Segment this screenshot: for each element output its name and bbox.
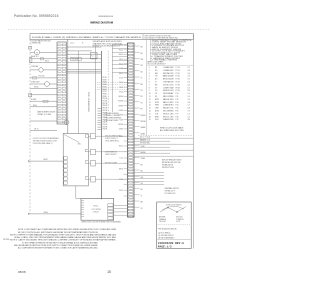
svg-text:P15: P15 bbox=[176, 108, 179, 110]
svg-text:TN-18: TN-18 bbox=[119, 87, 123, 89]
svg-text:USE COPPER CONDUCTORS ONLY: USE COPPER CONDUCTORS ONLY bbox=[145, 35, 173, 37]
svg-text:BU: BU bbox=[141, 71, 143, 73]
svg-text:MDL: MDL bbox=[78, 144, 81, 146]
svg-text:1-2: 1-2 bbox=[188, 67, 190, 69]
svg-text:RDW: RDW bbox=[155, 102, 159, 104]
svg-text:3-6: 3-6 bbox=[188, 119, 190, 121]
svg-text:11: 11 bbox=[149, 96, 151, 98]
svg-text:NOTE 3: CAVITY GROUNDED THROUG: NOTE 3: CAVITY GROUNDED THROUGH CHASSIS.… bbox=[10, 239, 117, 242]
svg-text:5-6: 5-6 bbox=[188, 73, 190, 75]
J1 stub labels bbox=[141, 47, 146, 210]
svg-text:PU-18: PU-18 bbox=[119, 82, 123, 84]
svg-text:5-7: 5-7 bbox=[188, 105, 190, 107]
svg-text:YL/BK: YL/BK bbox=[141, 146, 145, 148]
connector P1 pins bbox=[58, 44, 66, 123]
svg-text:CIRCUIT: CIRCUIT bbox=[93, 212, 99, 214]
svg-text:BR-18: BR-18 bbox=[119, 169, 123, 171]
connector J1 right stubs bbox=[134, 46, 140, 207]
svg-text:PAGE:1/2: PAGE:1/2 bbox=[158, 245, 172, 249]
svg-text:2-5: 2-5 bbox=[188, 116, 190, 118]
svg-text:P11 BK: P11 BK bbox=[103, 101, 108, 103]
svg-text:15: 15 bbox=[107, 270, 111, 274]
wire row 12 bbox=[30, 130, 57, 132]
svg-text:WIRE COLOR CODE TABLE: WIRE COLOR CODE TABLE bbox=[160, 126, 184, 129]
svg-text:P/N 318046200 (REV A): P/N 318046200 (REV A) bbox=[158, 228, 177, 231]
svg-text:P11: P11 bbox=[176, 96, 179, 98]
pin ladder labels bbox=[103, 77, 108, 131]
left border bbox=[29, 39, 31, 214]
svg-text:P1 BK: P1 BK bbox=[103, 77, 107, 79]
svg-text:WH-16: WH-16 bbox=[34, 86, 39, 88]
svg-text:PK: PK bbox=[141, 109, 143, 111]
svg-text:1-4: 1-4 bbox=[188, 113, 190, 115]
svg-text:CHASSIS GND: CHASSIS GND bbox=[163, 118, 174, 121]
latch assembly box bbox=[63, 134, 88, 186]
wire row 2 bbox=[30, 58, 57, 60]
svg-text:THIS APPLIANCE MUST BE PROPERL: THIS APPLIANCE MUST BE PROPERLY bbox=[93, 40, 123, 43]
svg-text:WH/BK: WH/BK bbox=[118, 105, 123, 107]
svg-text:COOLING FAN MOTOR 120V: COOLING FAN MOTOR 120V bbox=[31, 40, 51, 43]
svg-text:2-4: 2-4 bbox=[188, 96, 190, 98]
svg-text:NOTE 1: DISCONNECT ALL POWER B: NOTE 1: DISCONNECT ALL POWER BEFORE SERV… bbox=[18, 228, 117, 231]
svg-text:15: 15 bbox=[149, 108, 151, 110]
terminal block L1 bbox=[29, 46, 32, 49]
svg-text:LIGHT CIRCUIT: LIGHT CIRCUIT bbox=[105, 154, 117, 156]
svg-text:3-5: 3-5 bbox=[188, 99, 190, 101]
svg-text:7-9: 7-9 bbox=[188, 111, 190, 113]
svg-text:P18: P18 bbox=[176, 116, 179, 118]
svg-text:P14 COMMON WH/BK: P14 COMMON WH/BK bbox=[105, 118, 122, 120]
svg-text:OR/BK: OR/BK bbox=[141, 133, 146, 135]
bus wire vertical C bbox=[95, 43, 97, 133]
svg-text:P3 BK: P3 BK bbox=[103, 82, 107, 84]
svg-text:P23 BK: P23 BK bbox=[103, 129, 108, 131]
bus wire vertical A bbox=[67, 39, 69, 133]
oven light motor bbox=[45, 82, 50, 87]
svg-text:DOOR LOCK: DOOR LOCK bbox=[163, 84, 175, 86]
svg-text:DLB RELAY: DLB RELAY bbox=[163, 92, 175, 95]
door lock switch sketch bbox=[160, 204, 186, 212]
svg-text:DOOR SWITCH: DOOR SWITCH bbox=[105, 152, 117, 154]
svg-text:BK-14: BK-14 bbox=[119, 45, 123, 47]
right region wires bbox=[134, 138, 194, 156]
EOC to J1 wires bbox=[114, 205, 128, 215]
svg-text:1: 1 bbox=[149, 67, 150, 69]
svg-text:P9 18: P9 18 bbox=[176, 90, 180, 92]
svg-text:P14: P14 bbox=[176, 105, 179, 107]
svg-text:P6 18: P6 18 bbox=[176, 82, 180, 84]
svg-text:P7 BK: P7 BK bbox=[103, 91, 107, 93]
svg-text:OR-16: OR-16 bbox=[34, 129, 39, 131]
svg-text:ALL COMPONENTS SHOWN FROM REAR: ALL COMPONENTS SHOWN FROM REAR OF UNIT. … bbox=[18, 247, 98, 250]
svg-text:BAKE ELEMENT 3000W: BAKE ELEMENT 3000W bbox=[37, 111, 55, 114]
svg-text:P7 18: P7 18 bbox=[176, 84, 180, 86]
latch note text bbox=[33, 137, 60, 145]
svg-text:P14 BK: P14 BK bbox=[103, 108, 108, 110]
svg-text:P10: P10 bbox=[176, 93, 179, 95]
svg-text:TCO 120C: TCO 120C bbox=[38, 76, 45, 78]
svg-text:OPENS 150°F: OPENS 150°F bbox=[165, 190, 175, 192]
left edge component bbox=[29, 58, 32, 63]
svg-text:UNLOCK: UNLOCK bbox=[176, 217, 184, 219]
svg-text:P2 14: P2 14 bbox=[176, 70, 180, 72]
svg-text:PU: PU bbox=[155, 90, 158, 92]
svg-text:BR: BR bbox=[141, 202, 144, 204]
svg-text:P12 BK: P12 BK bbox=[103, 103, 108, 105]
svg-text:GYB: GYB bbox=[155, 119, 158, 121]
svg-text:BROWN: BROWN bbox=[159, 217, 166, 219]
svg-text:K1: K1 bbox=[91, 56, 93, 58]
wire color table bbox=[148, 60, 194, 121]
svg-text:CONV FAN MTR: CONV FAN MTR bbox=[163, 81, 174, 84]
svg-text:9-1: 9-1 bbox=[188, 79, 190, 81]
svg-text:ORB: ORB bbox=[155, 108, 158, 110]
bus wire vertical D bbox=[100, 51, 102, 199]
EOC control box bbox=[81, 199, 114, 221]
svg-text:7-8: 7-8 bbox=[188, 76, 190, 78]
svg-text:YL-18: YL-18 bbox=[119, 68, 123, 70]
svg-text:P4 16: P4 16 bbox=[176, 76, 180, 78]
svg-text:COM TO EOC P7: COM TO EOC P7 bbox=[105, 138, 118, 140]
svg-text:M: M bbox=[36, 52, 38, 54]
broil element bbox=[64, 120, 69, 125]
svg-text:P8 BK: P8 BK bbox=[103, 93, 107, 95]
svg-text:P13: P13 bbox=[176, 102, 179, 104]
latch wires to switches bbox=[88, 136, 127, 179]
svg-text:5: 5 bbox=[149, 79, 150, 81]
svg-text:BU-18: BU-18 bbox=[119, 146, 123, 148]
svg-text:P10 BK: P10 BK bbox=[103, 98, 108, 100]
title block divider 1 bbox=[157, 224, 192, 226]
svg-text:P17: P17 bbox=[176, 113, 179, 115]
svg-text:PK: PK bbox=[155, 96, 158, 98]
svg-text:P13 BK: P13 BK bbox=[103, 105, 108, 107]
svg-text:RD/WH: RD/WH bbox=[141, 121, 146, 123]
svg-text:P8 18: P8 18 bbox=[176, 87, 180, 89]
wire row 4 bbox=[30, 69, 39, 71]
svg-text:LOCK SWITCH N.C.: LOCK SWITCH N.C. bbox=[105, 141, 120, 143]
convection fan motor bbox=[39, 68, 43, 72]
svg-text:P2 BK: P2 BK bbox=[103, 79, 107, 81]
svg-text:DOOR LOCK SWITCH: DOOR LOCK SWITCH bbox=[166, 204, 181, 206]
svg-text:MDL DRIVE: MDL DRIVE bbox=[163, 96, 174, 98]
svg-text:UNLOCK SWITCH N.O.: UNLOCK SWITCH N.O. bbox=[105, 136, 123, 138]
svg-text:4-5: 4-5 bbox=[188, 84, 190, 86]
anti-tip note box bbox=[162, 158, 182, 169]
svg-text:FAN LO SPD: FAN LO SPD bbox=[163, 101, 174, 104]
svg-text:TN: TN bbox=[155, 93, 158, 95]
svg-text:L2-MAIN 240V: L2-MAIN 240V bbox=[163, 69, 174, 72]
svg-text:WHB: WHB bbox=[155, 105, 159, 107]
svg-text:P21 BK: P21 BK bbox=[103, 124, 108, 126]
svg-text:YL: YL bbox=[141, 78, 143, 80]
svg-text:RD: RD bbox=[155, 70, 158, 72]
svg-text:17: 17 bbox=[149, 113, 151, 115]
svg-text:BK: BK bbox=[141, 47, 143, 49]
svg-text:19: 19 bbox=[149, 119, 151, 121]
svg-text:RELAY N.O.: RELAY N.O. bbox=[31, 55, 39, 58]
cooling fan motor bbox=[34, 50, 39, 55]
svg-text:SW N.O. LEG: SW N.O. LEG bbox=[163, 113, 174, 115]
svg-text:BKW: BKW bbox=[155, 99, 159, 101]
dashed link row bbox=[97, 82, 128, 89]
svg-text:16: 16 bbox=[149, 111, 151, 113]
wire mid 1 bbox=[67, 50, 93, 52]
svg-text:HI-LIMIT: HI-LIMIT bbox=[31, 99, 37, 101]
svg-text:GY: GY bbox=[141, 90, 143, 92]
dashed bus vertical F bbox=[111, 44, 113, 112]
svg-text:DOUBLE WALL OVEN (1) WIRING ON: DOUBLE WALL OVEN (1) WIRING ON PANEL SIM… bbox=[32, 36, 142, 39]
svg-text:RD-14: RD-14 bbox=[33, 105, 37, 107]
wire row 3 bbox=[30, 62, 57, 64]
diagram title strip box bbox=[30, 34, 194, 40]
svg-text:Publication No. 5995592215: Publication No. 5995592215 bbox=[14, 14, 59, 18]
latch diagonal linkage bbox=[64, 134, 79, 142]
svg-text:P5 18: P5 18 bbox=[176, 79, 180, 81]
svg-text:P6 BK: P6 BK bbox=[103, 89, 107, 91]
svg-text:GY/BK: GY/BK bbox=[119, 129, 123, 131]
svg-text:OR: OR bbox=[141, 183, 144, 185]
svg-text:WIRE CODE CHART: WIRE CODE CHART bbox=[148, 60, 164, 63]
svg-text:10: 10 bbox=[149, 93, 151, 95]
svg-text:MOTOR 120VAC: MOTOR 120VAC bbox=[105, 161, 118, 164]
right region lower wires bbox=[134, 172, 164, 184]
svg-text:P9 BK: P9 BK bbox=[103, 96, 107, 98]
svg-text:BR-18: BR-18 bbox=[119, 73, 123, 75]
svg-text:8: 8 bbox=[149, 87, 150, 89]
svg-text:BRW: BRW bbox=[155, 116, 159, 118]
svg-text:P16: P16 bbox=[176, 111, 179, 113]
svg-text:OR: OR bbox=[155, 76, 158, 78]
svg-text:THERMAL SWITCH: THERMAL SWITCH bbox=[165, 187, 180, 190]
svg-text:WH NEUTRAL: WH NEUTRAL bbox=[140, 141, 150, 144]
connector J1 left stubs bbox=[124, 45, 128, 196]
svg-text:BR: BR bbox=[141, 84, 144, 86]
svg-text:MAIN HARNESS 14GA: MAIN HARNESS 14GA bbox=[88, 92, 91, 112]
svg-text:COMMON RET: COMMON RET bbox=[163, 105, 174, 107]
svg-text:L1 L2: L1 L2 bbox=[70, 43, 74, 45]
svg-text:8-9: 8-9 bbox=[188, 90, 190, 92]
svg-text:YL: YL bbox=[141, 195, 143, 197]
svg-text:WH/BK: WH/BK bbox=[141, 127, 146, 129]
wire to EOC long bbox=[28, 213, 81, 215]
svg-text:EOC: EOC bbox=[94, 206, 99, 208]
svg-text:BU: BU bbox=[155, 79, 158, 81]
svg-text:GY: GY bbox=[141, 208, 143, 210]
svg-text:3-4: 3-4 bbox=[188, 70, 190, 72]
svg-text:P5 BK: P5 BK bbox=[103, 86, 107, 88]
svg-text:2: 2 bbox=[149, 70, 150, 72]
svg-text:3: 3 bbox=[149, 73, 150, 75]
svg-text:ANTI-TIP BRACKET MUST: ANTI-TIP BRACKET MUST bbox=[162, 158, 182, 161]
svg-text:6-7: 6-7 bbox=[188, 87, 190, 89]
svg-text:BROIL 3400W: BROIL 3400W bbox=[163, 79, 174, 81]
svg-text:08/08: 08/08 bbox=[18, 270, 26, 274]
wire row 10 bbox=[30, 106, 57, 108]
svg-text:BK/WH: BK/WH bbox=[141, 115, 146, 117]
EOC pin ticks bbox=[82, 201, 85, 217]
wire row 11 bbox=[30, 120, 57, 122]
svg-text:NOTE 2: REFER TO MINI MANUAL F: NOTE 2: REFER TO MINI MANUAL FOR DETAILE… bbox=[10, 233, 117, 236]
svg-text:P12: P12 bbox=[176, 99, 179, 101]
title block divider 2 bbox=[157, 238, 192, 240]
svg-text:DOOR LOCK MOTOR ASSEMBLY: DOOR LOCK MOTOR ASSEMBLY bbox=[33, 137, 60, 140]
svg-text:BUW: BUW bbox=[155, 111, 159, 113]
svg-text:SW COM FEED: SW COM FEED bbox=[163, 111, 174, 113]
thermal switch note bbox=[165, 187, 180, 195]
bus wire vertical B bbox=[77, 51, 79, 134]
relay box K1 bbox=[91, 53, 98, 59]
svg-text:P15 BK: P15 BK bbox=[103, 110, 108, 112]
fold crease line bbox=[8, 28, 210, 30]
svg-text:LOCK: LOCK bbox=[176, 221, 181, 223]
svg-text:OR/BK: OR/BK bbox=[119, 110, 123, 112]
legend divider dashed bbox=[138, 135, 194, 137]
terminal block 2 bbox=[29, 94, 32, 97]
svg-text:SEE INSTALLATION INSTRUCTIONS: SEE INSTALLATION INSTRUCTIONS FOR SUPPLY… bbox=[14, 244, 99, 247]
connector P1 body bbox=[57, 42, 67, 124]
svg-text:LOCK DRIVE: LOCK DRIVE bbox=[91, 209, 101, 211]
svg-text:YL/BK: YL/BK bbox=[119, 119, 123, 121]
svg-text:ALL WIRES 600V 105°C MIN: ALL WIRES 600V 105°C MIN bbox=[160, 129, 184, 132]
svg-text:P4 BK: P4 BK bbox=[103, 84, 107, 86]
svg-text:WH: WH bbox=[141, 59, 144, 61]
title block bullets bbox=[158, 233, 175, 240]
wire row 4b bbox=[43, 69, 57, 71]
inline fuse box bbox=[71, 57, 82, 60]
svg-text:LIGHT SW: LIGHT SW bbox=[163, 87, 174, 89]
svg-text:RD/WH: RD/WH bbox=[118, 101, 123, 103]
pin ladder column bbox=[97, 109, 101, 130]
connector J1 pins bbox=[128, 45, 133, 217]
svg-text:P3 16: P3 16 bbox=[176, 73, 180, 75]
svg-text:FAN HI SPD: FAN HI SPD bbox=[163, 98, 175, 101]
svg-text:BK-14: BK-14 bbox=[45, 61, 49, 63]
svg-text:BU/WH: BU/WH bbox=[118, 115, 123, 117]
svg-text:BAKE 3000W: BAKE 3000W bbox=[163, 75, 174, 78]
dashed bus vertical E bbox=[107, 51, 109, 112]
connector J1 body bbox=[128, 43, 135, 217]
mid text block bbox=[105, 112, 122, 122]
svg-text:P1 14: P1 14 bbox=[176, 67, 180, 69]
svg-text:NOTES:: NOTES: bbox=[3, 239, 10, 241]
svg-text:SW N.C. LEG: SW N.C. LEG bbox=[163, 116, 174, 118]
svg-text:N: N bbox=[82, 43, 84, 45]
svg-text:P12 FAN HI BK/WH: P12 FAN HI BK/WH bbox=[105, 112, 120, 115]
svg-text:18: 18 bbox=[149, 116, 151, 118]
title block box bbox=[157, 202, 192, 249]
svg-text:7: 7 bbox=[149, 84, 150, 86]
latch right pins bbox=[85, 135, 88, 179]
svg-text:L1-MAIN 240V: L1-MAIN 240V bbox=[163, 66, 174, 69]
svg-text:(1) EOC SHIELD: (1) EOC SHIELD bbox=[158, 233, 171, 235]
svg-text:BR-18: BR-18 bbox=[44, 159, 48, 161]
svg-text:BK L1 TO DLB: BK L1 TO DLB bbox=[140, 136, 150, 138]
svg-text:BK/WH: BK/WH bbox=[118, 96, 123, 98]
svg-text:13: 13 bbox=[149, 102, 151, 104]
svg-text:RD L2 TO DLB: RD L2 TO DLB bbox=[140, 139, 150, 141]
svg-text:OR-18: OR-18 bbox=[119, 59, 123, 61]
svg-text:OR: OR bbox=[141, 65, 144, 67]
svg-text:PK-18: PK-18 bbox=[119, 91, 123, 93]
wire latch to switches bbox=[28, 160, 63, 162]
svg-text:WH-16: WH-16 bbox=[44, 212, 49, 214]
svg-text:OF ALL LOADS. USE ONLY REPLACE: OF ALL LOADS. USE ONLY REPLACEMENT WIRE … bbox=[14, 236, 117, 239]
svg-text:YELLOW: YELLOW bbox=[159, 221, 166, 223]
right border bbox=[193, 34, 195, 249]
svg-text:YL-18: YL-18 bbox=[119, 158, 123, 160]
svg-text:P22 BK: P22 BK bbox=[103, 126, 108, 128]
wire row 6 bbox=[30, 83, 45, 85]
svg-text:318046200 REV:A: 318046200 REV:A bbox=[158, 242, 184, 245]
latch pin column bbox=[64, 157, 67, 185]
svg-text:BR: BR bbox=[155, 84, 158, 86]
title block legend columns bbox=[159, 217, 184, 224]
svg-text:9: 9 bbox=[149, 90, 150, 92]
svg-text:RELAY COIL: RELAY COIL bbox=[163, 107, 174, 110]
svg-text:2-3: 2-3 bbox=[188, 82, 190, 84]
wire mid row group bbox=[67, 47, 102, 73]
svg-text:GY/BK: GY/BK bbox=[141, 158, 146, 160]
svg-text:COMMON: COMMON bbox=[176, 219, 184, 221]
svg-text:BU: BU bbox=[141, 189, 143, 191]
legend divider vertical bbox=[146, 39, 148, 135]
EOC pin header right bbox=[108, 204, 113, 220]
svg-text:DO NOT DEFEAT OR REMOVE GROUND: DO NOT DEFEAT OR REMOVE GROUND PATH. TOR… bbox=[22, 241, 98, 244]
svg-text:IN OFF POSITION. ALL SWITCHES: IN OFF POSITION. ALL SWITCHES SHOWN AT R… bbox=[18, 231, 99, 234]
svg-text:YLB: YLB bbox=[155, 113, 158, 115]
wire row 9 bbox=[30, 100, 57, 102]
svg-text:PU-18: PU-18 bbox=[119, 190, 123, 192]
svg-text:GY-18: GY-18 bbox=[119, 77, 123, 79]
svg-text:1-3: 1-3 bbox=[188, 93, 190, 95]
svg-text:WH: WH bbox=[155, 73, 159, 75]
svg-text:SENSOR 1091: SENSOR 1091 bbox=[163, 90, 174, 92]
svg-text:OVEN DOOR LOCK MOTOR AND SWITC: OVEN DOOR LOCK MOTOR AND SWITCH ASSEMBLY bbox=[81, 221, 122, 224]
svg-text:CONV FAN: CONV FAN bbox=[31, 65, 38, 68]
svg-text:NEUTRAL 120V: NEUTRAL 120V bbox=[163, 72, 174, 75]
svg-text:WH-16: WH-16 bbox=[119, 54, 124, 56]
latch area labels bbox=[105, 136, 123, 165]
svg-text:RD: RD bbox=[141, 53, 144, 55]
svg-text:14: 14 bbox=[149, 105, 151, 107]
right region wire labels bbox=[140, 136, 150, 144]
svg-text:GY: GY bbox=[155, 87, 158, 89]
svg-text:CLOSES 110°F: CLOSES 110°F bbox=[165, 193, 176, 195]
switch boxes right of latch bbox=[91, 133, 96, 182]
notes block bbox=[10, 228, 117, 249]
svg-text:12: 12 bbox=[149, 99, 151, 101]
svg-text:4: 4 bbox=[149, 76, 150, 78]
component legend list bbox=[150, 40, 192, 62]
svg-text:BK: BK bbox=[141, 164, 143, 166]
svg-text:OVEN LIGHT: OVEN LIGHT bbox=[31, 82, 40, 84]
svg-text:RD-14: RD-14 bbox=[119, 50, 123, 52]
svg-text:TN: TN bbox=[141, 102, 143, 104]
svg-text:PU: PU bbox=[141, 96, 143, 98]
J1 left labels bbox=[118, 45, 123, 192]
svg-text:BK: BK bbox=[155, 67, 158, 69]
svg-text:6: 6 bbox=[149, 82, 150, 84]
svg-text:BR/WH: BR/WH bbox=[118, 124, 123, 126]
wire to cooling fan bbox=[30, 51, 34, 53]
svg-text:EW30EW55GS: EW30EW55GS bbox=[99, 16, 114, 18]
wire latch down to EOC bbox=[75, 186, 77, 199]
svg-text:P19: P19 bbox=[176, 119, 179, 121]
svg-text:POSITION (SEE PAGE 2): POSITION (SEE PAGE 2) bbox=[33, 142, 53, 145]
svg-text:YL: YL bbox=[155, 82, 157, 84]
svg-text:WIRING DIAGRAM: WIRING DIAGRAM bbox=[90, 20, 113, 24]
